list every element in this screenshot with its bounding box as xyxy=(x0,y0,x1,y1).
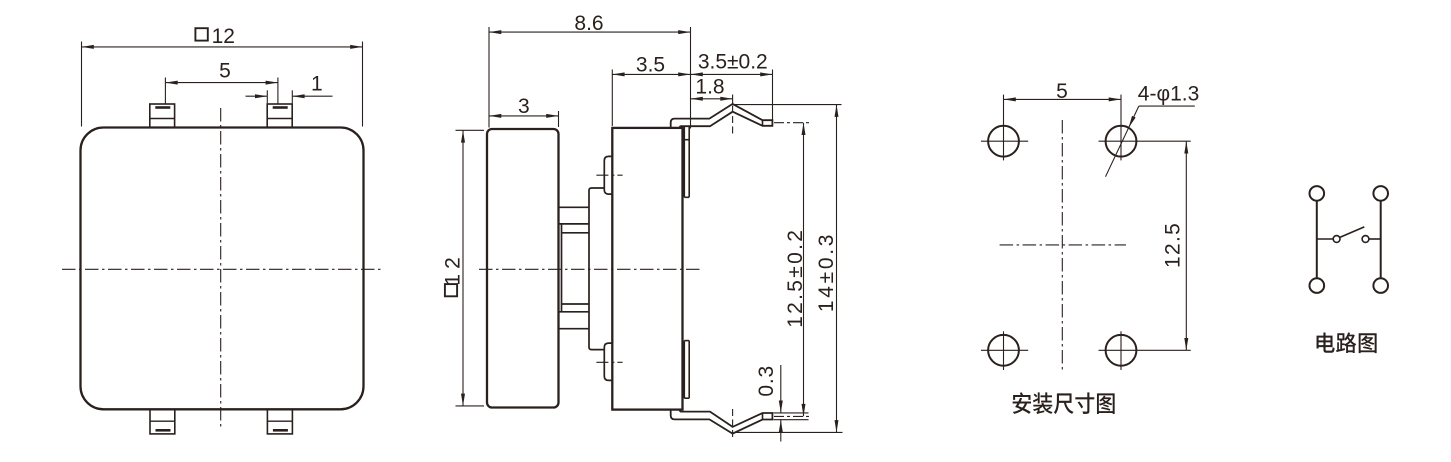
circuit: switch arm (open) xyxy=(1340,227,1365,238)
front view: switch body outline xyxy=(81,128,364,410)
svg-text:8.6: 8.6 xyxy=(574,12,603,35)
circuit: switch right stub wire xyxy=(1369,238,1381,240)
dimension 8.6 (side overall width) xyxy=(489,31,691,33)
mounting view: hole top-right xyxy=(1106,126,1137,157)
side view: top gull-wing pin xyxy=(671,104,773,128)
mounting view: hole top-left xyxy=(988,126,1019,157)
svg-text:12: 12 xyxy=(442,252,465,285)
front view: top-right mounting tab xyxy=(267,104,292,128)
dimension 1.8 xyxy=(691,98,733,100)
svg-text:1: 1 xyxy=(311,72,323,95)
svg-text:5: 5 xyxy=(219,59,231,82)
svg-text:3: 3 xyxy=(518,95,530,118)
side view: main body xyxy=(612,128,682,410)
circuit: switch left contact circle xyxy=(1333,236,1340,243)
dimension 4-phi1.3 leader xyxy=(1139,105,1195,107)
svg-text:12.5: 12.5 xyxy=(1162,222,1185,268)
svg-text:0.3: 0.3 xyxy=(755,365,778,397)
side view: right terminal strip upper xyxy=(684,126,689,197)
circuit: terminal 2 (bottom-left) xyxy=(1310,278,1325,293)
circuit: terminal 1 (top-left) xyxy=(1310,186,1325,201)
front view: bottom-left mounting tab xyxy=(150,409,175,434)
circuit: switch left stub wire xyxy=(1317,238,1333,240)
mounting view: hole bottom-right xyxy=(1106,335,1137,366)
dimension 14±0.3 vertical xyxy=(836,105,838,433)
mounting view: crosshairs xyxy=(981,140,1028,142)
dimension square-12 vertical (side height) xyxy=(462,130,464,406)
svg-text:3.5±0.2: 3.5±0.2 xyxy=(698,51,768,74)
svg-text:1.8: 1.8 xyxy=(695,76,724,99)
circuit: left wire xyxy=(1316,201,1318,278)
side view: top bend center line xyxy=(732,95,734,105)
dimension 0.3 (foot thickness) xyxy=(780,365,782,413)
dimension 1 (front, tab width) xyxy=(246,95,268,97)
dimension 5 (front, tab pitch) xyxy=(165,82,278,84)
side view: bottom gull-wing pin xyxy=(671,410,773,434)
side view: plunger block xyxy=(589,188,604,350)
side view: upper boss center line xyxy=(596,174,622,176)
circuit: switch right contact circle xyxy=(1362,236,1369,243)
caption: circuit diagram label (电路图) xyxy=(1317,332,1335,352)
side view: upper boss on body xyxy=(604,156,612,194)
circuit: terminal 3 (top-right) xyxy=(1373,186,1388,201)
mounting view: horizontal center line xyxy=(1000,244,1126,246)
svg-text:5: 5 xyxy=(1056,80,1068,103)
side view: lower boss on body xyxy=(604,343,612,380)
dimension 12.5±0.2 vertical xyxy=(803,123,805,417)
front view: horizontal center line xyxy=(62,268,381,270)
side view: horizontal center line xyxy=(479,268,701,270)
dimension 3.5 (body to ext line) xyxy=(612,73,690,75)
mounting view: vertical center line xyxy=(1061,120,1063,372)
mounting view: hole bottom-left xyxy=(988,335,1019,366)
dimension 3 (cap thickness) xyxy=(489,115,559,117)
circuit: terminal 4 (bottom-right) xyxy=(1373,278,1388,293)
side view: right terminal strip lower xyxy=(684,341,689,399)
side view: bottom bend center line xyxy=(732,409,734,438)
svg-text:12.5±0.2: 12.5±0.2 xyxy=(784,228,807,328)
dimension 3.5±0.2 (pin span) xyxy=(691,73,773,75)
dimension 12.5 vertical (hole pitch) xyxy=(1185,141,1187,350)
dimension square-12 (front width) xyxy=(82,46,363,48)
svg-text:12: 12 xyxy=(212,25,235,48)
svg-text:14±0.3: 14±0.3 xyxy=(815,232,838,312)
front view: vertical center line xyxy=(220,108,222,429)
caption: mounting dimensions label (安装尺寸图) xyxy=(1013,392,1031,414)
front view: top-left mounting tab xyxy=(150,104,175,128)
circuit: right wire xyxy=(1380,201,1382,278)
side view: button cap xyxy=(487,129,559,408)
front view: bottom-right mounting tab xyxy=(267,409,292,434)
svg-text:4-φ1.3: 4-φ1.3 xyxy=(1138,83,1199,106)
svg-text:3.5: 3.5 xyxy=(636,53,665,76)
side view: stem lines between cap and plunger xyxy=(559,207,590,328)
side view: lower boss center line xyxy=(596,361,622,363)
dimension 5 (hole pitch) xyxy=(1004,98,1122,100)
